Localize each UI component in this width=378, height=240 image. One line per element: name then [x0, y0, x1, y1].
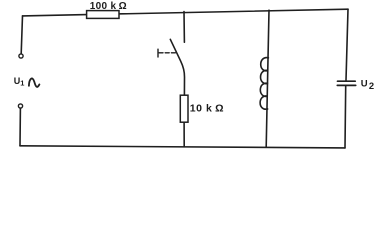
svg-text:U2: U2: [361, 78, 374, 91]
svg-text:U1: U1: [14, 76, 25, 88]
svg-text:10 k Ω: 10 k Ω: [190, 102, 224, 114]
svg-text:100 k Ω: 100 k Ω: [90, 1, 127, 12]
